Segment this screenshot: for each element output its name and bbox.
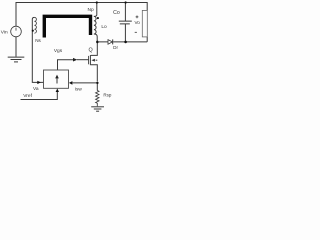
- svg-text:Q: Q: [88, 48, 92, 54]
- svg-text:Np: Np: [88, 7, 94, 13]
- svg-text:Rsp: Rsp: [103, 93, 111, 98]
- svg-text:Lo: Lo: [101, 24, 107, 30]
- svg-text:Vgs: Vgs: [54, 48, 63, 54]
- svg-text:Va: Va: [33, 86, 39, 92]
- svg-text:Ns: Ns: [35, 38, 41, 43]
- svg-text:Vin: Vin: [1, 30, 8, 36]
- svg-text:Vref: Vref: [23, 93, 32, 99]
- svg-text:Isw: Isw: [75, 87, 83, 92]
- svg-text:Dr: Dr: [113, 45, 118, 50]
- svg-text:Vo: Vo: [135, 20, 141, 25]
- svg-text:Co: Co: [113, 10, 120, 16]
